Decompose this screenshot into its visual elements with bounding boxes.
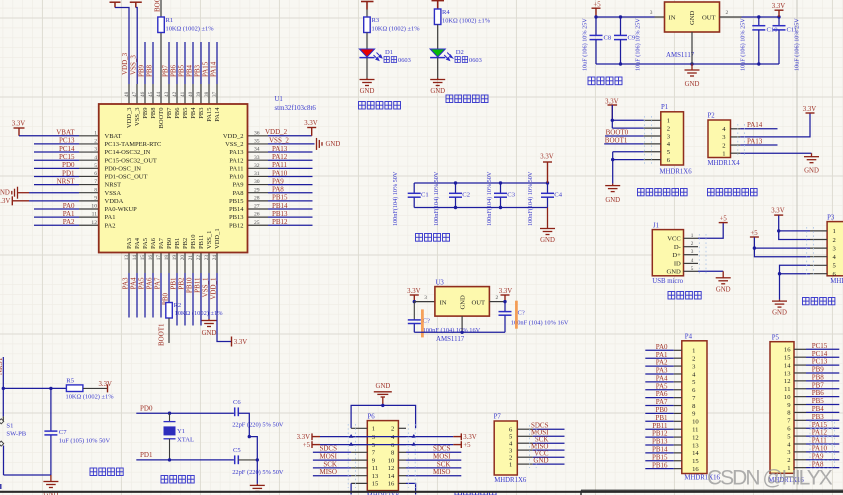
wire PD1 [136, 459, 234, 461]
svg-text:IN: IN [669, 15, 676, 22]
wire MISO right [406, 475, 461, 477]
label power-indicator [359, 102, 366, 110]
svg-text:PB7: PB7 [162, 64, 170, 77]
svg-text:MISO: MISO [433, 468, 451, 476]
pin 7 P4 PA6 [674, 397, 682, 399]
wire PB9 [806, 372, 839, 374]
pin 42 PB6 [176, 84, 178, 104]
svg-text:17: 17 [156, 255, 162, 261]
pin 6 P6 [398, 444, 406, 446]
pin 2 OUT [720, 16, 742, 18]
svg-text:3: 3 [691, 249, 694, 255]
wire PB1 [645, 420, 673, 422]
pin 11 P5 PB7 [794, 388, 806, 390]
pin 29 PA8 [248, 192, 269, 194]
svg-text:13: 13 [784, 370, 791, 377]
pin 16 PA6 [152, 253, 154, 274]
power 3.3V (P3) [774, 214, 783, 216]
svg-text:GND: GND [716, 287, 731, 294]
wire VDDA [29, 200, 79, 202]
pin 2 P2 [731, 144, 741, 146]
svg-text:VSS_3: VSS_3 [134, 108, 141, 126]
ground GND (decouple) [540, 208, 555, 235]
svg-text:PA6: PA6 [656, 390, 668, 398]
svg-text:PA11: PA11 [272, 161, 288, 169]
svg-text:2: 2 [833, 237, 836, 244]
pin 4 P5 PA11 [794, 443, 806, 445]
svg-text:BOOT1: BOOT1 [158, 323, 166, 346]
wire PA2 [34, 224, 79, 226]
svg-text:C2: C2 [462, 192, 470, 199]
wire C5 to gnd node [238, 459, 257, 461]
wire PA13 [740, 144, 777, 146]
wire PA12 [268, 159, 313, 161]
svg-text:VCC: VCC [667, 236, 681, 243]
svg-text:VSS_2: VSS_2 [269, 136, 289, 144]
svg-text:16: 16 [784, 347, 791, 354]
wire decouple bottom rail [414, 207, 547, 209]
svg-text:11: 11 [92, 212, 98, 218]
svg-text:37: 37 [212, 91, 218, 97]
wire PA4 [645, 381, 673, 383]
svg-text:1: 1 [509, 461, 512, 468]
svg-text:PA6: PA6 [146, 277, 154, 289]
pin 12 P4 PB12 [674, 436, 682, 438]
connector P5 MHDR1X16 [770, 342, 794, 474]
pin 2 OUT U3 [489, 301, 505, 303]
svg-text:14: 14 [784, 362, 791, 369]
svg-text:PC13: PC13 [812, 358, 828, 366]
wire VSSA [29, 192, 79, 194]
pin 41 PB5 [184, 84, 186, 104]
pin 3 J1 D+ [684, 254, 699, 256]
pin 9 VDDA [79, 200, 99, 202]
svg-text:BOOT0: BOOT0 [158, 108, 165, 129]
svg-text:U1: U1 [275, 96, 283, 103]
pin 19 PB1 [176, 253, 178, 274]
svg-text:PB7: PB7 [166, 107, 173, 119]
svg-text:R3: R3 [372, 17, 380, 24]
pin 3 IN U3 [414, 301, 435, 303]
wire MOSI left [313, 459, 351, 461]
svg-text:PB9: PB9 [138, 64, 146, 77]
wire PB13 [268, 216, 313, 218]
svg-text:3.3V: 3.3V [772, 3, 785, 10]
pin 34 PA13 [248, 151, 269, 153]
wire C6 to gnd node [238, 413, 257, 484]
svg-text:100nF (104) 10% 16V: 100nF (104) 10% 16V [511, 320, 569, 327]
wire VSS_2 [268, 143, 315, 145]
power +5 (J1) [719, 222, 728, 224]
pin 10 P4 PB1 [674, 420, 682, 422]
svg-text:2: 2 [391, 426, 394, 433]
svg-text:3.3V: 3.3V [499, 288, 512, 295]
svg-text:PB12: PB12 [652, 430, 668, 438]
label download-mode-select [638, 189, 645, 196]
svg-text:+5: +5 [750, 230, 758, 237]
capacitor C5 [235, 455, 239, 464]
pin 35 VSS_2 [248, 143, 269, 145]
svg-text:SW-PB: SW-PB [6, 431, 26, 438]
svg-text:3.3V: 3.3V [540, 154, 553, 161]
pin 11 PA1 [79, 216, 99, 218]
svg-text:31: 31 [254, 171, 260, 177]
label power-input [668, 292, 675, 300]
svg-text:1: 1 [691, 233, 694, 239]
svg-text:3.3V: 3.3V [803, 106, 816, 113]
connector P4 MHDR1X16 [682, 341, 707, 474]
svg-text:ID: ID [674, 261, 681, 268]
svg-text:+5: +5 [463, 442, 471, 449]
svg-text:PC13-TAMPER-RTC: PC13-TAMPER-RTC [105, 141, 162, 148]
pin 4 P3 [810, 256, 827, 258]
power 3.3V (VDDA) [12, 196, 29, 205]
svg-text:12: 12 [388, 465, 395, 472]
svg-text:SDCS: SDCS [433, 445, 451, 453]
svg-text:15: 15 [692, 458, 699, 465]
pin 15 P6 [351, 482, 367, 484]
pin 4 P4 PA3 [674, 373, 682, 375]
svg-text:P6: P6 [368, 413, 376, 420]
svg-text:PC14: PC14 [812, 350, 828, 358]
svg-text:PA4: PA4 [134, 237, 141, 249]
pin 8 P5 PB4 [794, 411, 806, 413]
wire PB11 [200, 273, 202, 326]
svg-text:VDDA: VDDA [105, 198, 124, 205]
power 3.3V (D2 rail) [432, 1, 445, 9]
pin 8 P6 [398, 451, 406, 453]
pin 4 PC15-OSC32_OUT [79, 159, 99, 161]
wire PA14 [740, 128, 777, 130]
wire U3 ground rail [414, 331, 505, 333]
svg-text:NRST: NRST [0, 356, 4, 375]
svg-text:20: 20 [180, 255, 186, 261]
svg-text:P2: P2 [708, 113, 716, 120]
power 3.3V (U3 out) [501, 295, 510, 302]
svg-text:PB6: PB6 [174, 107, 181, 119]
svg-text:GND: GND [804, 168, 819, 175]
svg-text:1: 1 [692, 348, 695, 355]
svg-text:34: 34 [254, 147, 260, 153]
svg-text:13: 13 [372, 473, 379, 480]
pin 33 PA12 [248, 159, 269, 161]
svg-text:PB15: PB15 [229, 198, 243, 205]
svg-text:2: 2 [692, 355, 695, 362]
sheet border bottom [0, 491, 843, 493]
wire PA11 [268, 167, 313, 169]
power +5 (U2 in) [592, 8, 601, 17]
svg-text:2: 2 [722, 142, 725, 149]
svg-text:PA0-WKUP: PA0-WKUP [105, 206, 138, 213]
svg-text:PA7: PA7 [158, 237, 165, 249]
svg-text:10KΩ (1002) ±1%: 10KΩ (1002) ±1% [372, 26, 421, 33]
wire PB5 [806, 404, 839, 406]
pin 45 PB8 [152, 84, 154, 104]
svg-text:100nF(104) 10% 50V: 100nF(104) 10% 50V [527, 171, 534, 226]
wire J1 VCC to +5 [698, 223, 723, 238]
svg-text:PA15: PA15 [812, 421, 828, 429]
pin 36 VDD_2 [248, 135, 269, 137]
wire VSS_1 [208, 273, 210, 319]
power 3.3V (D1 rail) [361, 2, 374, 10]
capacitor C6 [235, 407, 239, 416]
wire PA3 [645, 373, 673, 375]
svg-text:PA3: PA3 [122, 277, 130, 289]
pin 7 NRST [79, 184, 99, 186]
LED D2 [430, 49, 445, 57]
svg-text:GND: GND [360, 88, 375, 95]
pin 2 P6 [398, 427, 406, 429]
pin 14 P4 PB14 [674, 452, 682, 454]
wire reset bottom rail [4, 474, 51, 476]
svg-text:15: 15 [140, 255, 146, 261]
svg-text:S1: S1 [6, 422, 13, 429]
svg-text:PB0: PB0 [166, 238, 173, 249]
capacitor C2 [455, 183, 457, 193]
wire NRST [34, 184, 79, 186]
svg-text:2: 2 [726, 10, 729, 16]
svg-text:PA8: PA8 [272, 186, 284, 194]
pin 9 P4 PB0 [674, 412, 682, 414]
svg-text:PB3: PB3 [194, 64, 202, 77]
svg-text:PB1: PB1 [655, 414, 668, 422]
svg-text:PB1: PB1 [170, 277, 178, 290]
svg-text:PA2: PA2 [105, 222, 116, 229]
svg-text:PA11: PA11 [230, 165, 244, 172]
svg-text:PA13: PA13 [747, 137, 763, 145]
svg-text:stm32f103c8t6: stm32f103c8t6 [275, 105, 317, 112]
pin 3 P6 [351, 436, 367, 438]
wire VDD_1 [217, 273, 232, 342]
svg-text:5: 5 [691, 266, 694, 272]
svg-text:0603: 0603 [398, 57, 411, 64]
svg-text:22: 22 [196, 255, 202, 261]
svg-text:PA12: PA12 [229, 157, 243, 164]
svg-text:14: 14 [388, 473, 395, 480]
wire PB8 [152, 42, 154, 84]
svg-text:MHDR1X6: MHDR1X6 [660, 169, 693, 176]
connector P7 MHDR1X6 [494, 421, 517, 475]
svg-text:VSS_1: VSS_1 [202, 277, 210, 297]
capacitor C? (U3 in) [413, 302, 415, 320]
svg-text:PB3: PB3 [812, 413, 825, 421]
wire PB9 [144, 42, 146, 84]
wire SCK left [313, 467, 351, 469]
svg-text:26: 26 [254, 212, 260, 218]
svg-text:PA0: PA0 [63, 202, 75, 210]
pin 12 PA2 [79, 224, 99, 226]
wire PD0 [34, 167, 79, 169]
pin 5 PD0-OSC_IN [79, 167, 99, 169]
pin 1 P1 [644, 119, 661, 121]
svg-text:3: 3 [94, 147, 97, 153]
svg-text:VBAT: VBAT [105, 133, 122, 140]
svg-text:D+: D+ [672, 252, 681, 259]
svg-text:29: 29 [254, 187, 260, 193]
pin 43 PB7 [168, 84, 170, 104]
pin 28 PB15 [248, 200, 269, 202]
wire PC14 [806, 356, 839, 358]
svg-text:PA14: PA14 [747, 121, 763, 129]
svg-text:13: 13 [692, 442, 699, 449]
pin 1 VBAT [79, 135, 99, 137]
svg-text:9: 9 [94, 195, 97, 201]
wire PA7 [645, 405, 673, 407]
pin 5 P1 [644, 151, 661, 153]
svg-text:4: 4 [94, 155, 97, 161]
svg-text:PD0: PD0 [62, 161, 75, 169]
svg-text:6: 6 [94, 171, 97, 177]
svg-text:MISO: MISO [319, 468, 337, 476]
power 3.3V (U3 in) [410, 295, 419, 302]
svg-text:PC13: PC13 [59, 137, 75, 145]
svg-text:C1: C1 [421, 192, 429, 199]
svg-text:GND: GND [460, 295, 467, 310]
pin 15 PA5 [144, 253, 146, 274]
svg-text:PA7: PA7 [154, 277, 162, 289]
wire S1 left terminal [0, 484, 2, 489]
svg-text:PB2: PB2 [178, 277, 186, 290]
svg-text:XTAL: XTAL [177, 437, 194, 444]
pin 12 P6 [398, 467, 406, 469]
wire PB15 [268, 200, 313, 202]
wire +5 rail P6 [312, 441, 320, 448]
wire PB7 [806, 388, 839, 390]
wire MOSI right [406, 459, 461, 461]
svg-text:GND: GND [689, 10, 696, 25]
wire PB12 [268, 224, 313, 226]
svg-text:PC15: PC15 [59, 153, 75, 161]
capacitor C11 [778, 17, 780, 25]
pin 3 P3 [810, 247, 827, 249]
pin 3 P4 PA2 [674, 365, 682, 367]
pin 16 P4 PB16 [674, 468, 682, 470]
svg-text:GND: GND [685, 81, 700, 88]
wire SCK P7 [533, 442, 565, 444]
label reset-circuit [90, 468, 97, 476]
svg-text:GND: GND [540, 237, 555, 244]
svg-text:P3: P3 [827, 214, 835, 221]
svg-text:1: 1 [833, 228, 836, 235]
svg-text:1: 1 [372, 426, 375, 433]
pin 4 J1 ID [684, 262, 699, 264]
pin 10 P5 PB6 [794, 396, 806, 398]
wire PA1 [34, 216, 79, 218]
svg-text:43: 43 [164, 91, 170, 97]
pin 7 P5 PB3 [794, 419, 806, 421]
wire PB15 [645, 460, 673, 462]
svg-text:15: 15 [372, 481, 379, 488]
pin 3 P1 [644, 135, 661, 137]
svg-text:PD1: PD1 [140, 451, 153, 459]
svg-text:12: 12 [784, 378, 791, 385]
svg-text:D1: D1 [385, 49, 393, 56]
svg-text:PA5: PA5 [656, 382, 668, 390]
capacitor C4 [547, 183, 549, 193]
pin 46 PB9 [144, 84, 146, 104]
pin 1 GND U3 [461, 316, 463, 332]
ground GND (U2) [685, 64, 700, 76]
pin 47 VSS_3 [136, 84, 138, 104]
capacitor C? (U3 out) [504, 302, 506, 312]
svg-text:GND: GND [430, 88, 445, 95]
svg-text:33: 33 [254, 155, 260, 161]
svg-text:1: 1 [722, 150, 725, 157]
svg-text:D-: D- [674, 244, 681, 251]
power 3.3V (P1) [608, 105, 618, 120]
wire PB0 [168, 273, 170, 303]
svg-text:PA9: PA9 [812, 452, 824, 460]
connector P6 MHDR2X8 [367, 421, 398, 491]
power bar (VDD_3) [110, 2, 121, 7]
svg-text:PB14: PB14 [229, 206, 244, 213]
wire PA0 [645, 349, 673, 351]
svg-text:C6: C6 [233, 399, 241, 406]
svg-text:OUT: OUT [702, 15, 716, 22]
svg-text:1: 1 [94, 130, 97, 136]
svg-text:MOSI: MOSI [433, 453, 451, 461]
svg-text:+5: +5 [593, 1, 601, 8]
wire PA11 [806, 443, 839, 445]
pin 48 VDD_3 [128, 84, 130, 104]
svg-text:PB4: PB4 [190, 107, 197, 119]
svg-text:PB5: PB5 [812, 397, 825, 405]
wire PA9 [268, 184, 313, 186]
svg-text:15: 15 [784, 354, 791, 361]
svg-text:PA14: PA14 [214, 107, 221, 122]
label buck-circuit [588, 77, 595, 85]
svg-text:42: 42 [172, 91, 178, 97]
svg-text:PB4: PB4 [812, 405, 825, 413]
svg-text:PB11: PB11 [194, 277, 202, 293]
wire P2.3 to 3.3V [740, 114, 810, 137]
power 3.3V (P2) [806, 112, 815, 115]
svg-text:PB1: PB1 [174, 238, 181, 249]
pin 5 P3 [810, 264, 827, 266]
svg-text:PA13: PA13 [229, 149, 243, 156]
wire PA15 [806, 427, 839, 429]
ground GND (crystal) [250, 484, 265, 492]
pin 30 PA9 [248, 184, 269, 186]
wire PC15 [34, 159, 79, 161]
svg-text:48: 48 [124, 91, 130, 97]
wire PA0 [34, 208, 79, 210]
wire OUT to 3.3V [742, 16, 780, 18]
pin 3 P7 [517, 449, 532, 451]
pin 6 P3 [810, 273, 827, 275]
svg-text:3.3V: 3.3V [234, 339, 247, 346]
svg-text:3.3V: 3.3V [304, 120, 317, 127]
svg-text:32: 32 [254, 163, 260, 169]
svg-text:MHDR1X6: MHDR1X6 [830, 278, 843, 285]
svg-text:10KΩ (1002) ±1%: 10KΩ (1002) ±1% [442, 18, 491, 25]
wire D1-GND [366, 58, 368, 78]
svg-text:SCK: SCK [323, 460, 337, 468]
svg-text:PB14: PB14 [652, 445, 668, 453]
pin 12 P5 PB8 [794, 380, 806, 382]
ground GND (reset) [43, 475, 58, 488]
svg-text:PB14: PB14 [272, 202, 288, 210]
svg-text:3.3V: 3.3V [605, 99, 618, 106]
svg-text:1: 1 [667, 118, 670, 125]
svg-text:PA15: PA15 [202, 61, 210, 77]
wire R3-D1 [366, 33, 368, 50]
svg-text:R1: R1 [166, 17, 174, 24]
svg-text:PA0: PA0 [656, 343, 668, 351]
wire PB12 [645, 436, 673, 438]
svg-text:MHDR1X4: MHDR1X4 [708, 160, 741, 167]
pin 4 P2 [731, 128, 741, 130]
